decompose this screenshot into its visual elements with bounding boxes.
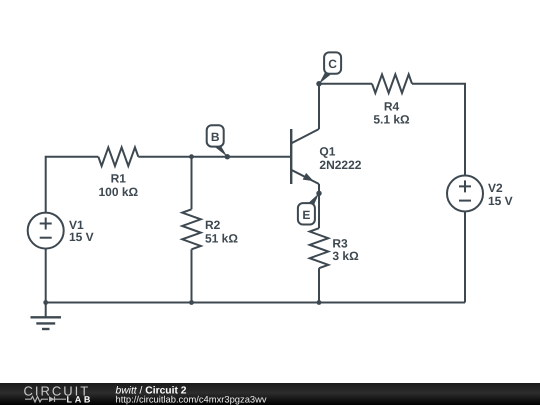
svg-text:5.1 kΩ: 5.1 kΩ [373,113,410,127]
svg-text:R4: R4 [384,99,400,113]
svg-text:R1: R1 [111,172,127,186]
resistor R3 [310,228,329,268]
resistor R1 [98,147,138,166]
svg-text:R2: R2 [205,218,221,232]
wire R3 bottom to ground bus [318,268,320,302]
junction node R1/R2/base [189,154,194,159]
svg-text:51 kΩ: 51 kΩ [205,232,238,246]
wire R2 bottom to ground bus [191,249,193,302]
wire V2 bottom to ground bus [464,212,466,303]
wire ground bus [46,302,465,304]
svg-text:3 kΩ: 3 kΩ [332,249,359,263]
svg-text:R3: R3 [332,236,348,250]
wire R4 to V2 top [412,84,465,176]
svg-text:LAB: LAB [67,394,94,404]
wire left rail: V1 top to base-row corner [46,157,99,213]
svg-text:2N2222: 2N2222 [319,158,361,172]
voltage source V1 [28,213,64,249]
svg-text:C: C [328,57,337,71]
node E dot [316,191,321,196]
junction R2/ground bus [189,300,194,305]
node B dot [225,154,230,159]
wire node C to R4 [319,83,372,85]
voltage source V2 [447,176,483,212]
svg-text:E: E [302,208,310,222]
node B label box [207,125,224,146]
wire Q1 collector up to node C [318,84,320,129]
node C label box [324,52,341,73]
node E label box [298,203,315,224]
resistor R2 [182,209,201,249]
junction R3/ground bus [317,300,322,305]
node E pointer [309,193,319,206]
svg-text:http://circuitlab.com/c4mxr3pg: http://circuitlab.com/c4mxr3pgza3wv [116,393,267,404]
ground [31,316,62,318]
wire V1 bottom to ground bus [45,249,47,303]
svg-text:15 V: 15 V [69,230,94,244]
transistor Q1 [291,129,319,184]
node C dot [316,81,321,86]
wire R2 branch: node B junction down to R2 [191,157,193,210]
wire Q1 emitter down to R3 [318,184,320,228]
wire ground stub [45,303,47,318]
junction ground/bus [43,300,48,305]
wire base row: R1 to Q1 base [138,156,290,158]
Q1 emitter arrowhead [303,173,314,181]
node C pointer [319,71,330,84]
svg-text:Q1: Q1 [319,145,335,159]
CircuitLab logo squiggle [25,397,66,402]
node B pointer [215,143,228,157]
resistor R4 [372,74,412,93]
svg-text:B: B [211,130,220,144]
svg-text:15 V: 15 V [488,194,513,208]
svg-text:100 kΩ: 100 kΩ [98,185,138,199]
